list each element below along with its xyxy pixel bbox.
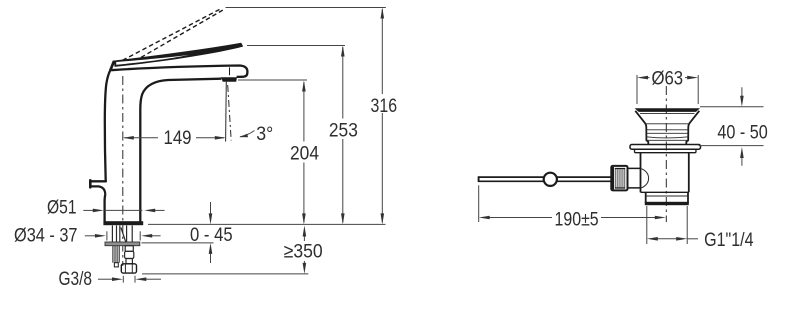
svg-text:149: 149 bbox=[164, 127, 192, 149]
svg-text:0 - 45: 0 - 45 bbox=[190, 224, 233, 246]
svg-text:G3/8: G3/8 bbox=[59, 268, 93, 290]
svg-text:40 - 50: 40 - 50 bbox=[717, 121, 768, 143]
svg-text:Ø63: Ø63 bbox=[651, 68, 683, 90]
svg-text:316: 316 bbox=[371, 95, 398, 117]
svg-text:Ø51: Ø51 bbox=[47, 197, 77, 219]
svg-text:Ø34 - 37: Ø34 - 37 bbox=[14, 225, 78, 247]
svg-text:204: 204 bbox=[290, 143, 319, 165]
svg-text:G1"1/4: G1"1/4 bbox=[704, 229, 754, 251]
svg-text:≥350: ≥350 bbox=[284, 241, 323, 263]
svg-text:3°: 3° bbox=[256, 123, 273, 145]
svg-text:253: 253 bbox=[329, 120, 358, 142]
svg-text:190±5: 190±5 bbox=[555, 209, 599, 231]
